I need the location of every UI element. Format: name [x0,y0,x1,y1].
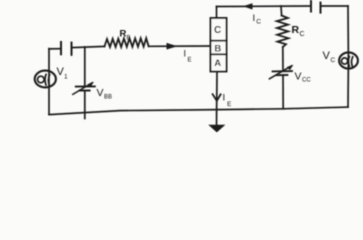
svg-text:I: I [184,49,187,59]
wire: RB to base terminal, with arrow [149,45,211,47]
label V1 [57,66,69,81]
svg-text:B: B [214,43,221,54]
svg-text:C: C [256,19,261,26]
svg-text:V: V [323,50,331,62]
svg-text:I: I [223,93,226,104]
arrow IC (pointing left on top rail) [243,3,253,9]
wire: collector stub up from block [216,7,218,19]
wire: right vertical (upper) [347,6,349,62]
arrowhead on base wire (IE into base) [167,43,178,50]
svg-text:V: V [295,71,302,83]
battery VCC (variable, with diagonal arrow) [269,65,293,79]
resistor RB (zigzag) [105,38,149,47]
wire: RC to VCC battery [282,47,284,71]
source VC (AC source circle, right) [339,52,358,68]
pin label C [214,25,221,36]
svg-text:CC: CC [302,78,311,84]
transistor block outline [211,18,227,72]
wire: top horizontal (collector rail) [217,5,312,8]
svg-text:C: C [214,25,221,36]
label VC [323,50,336,64]
pin label B [214,43,221,54]
wire: capacitor to RB / VBB junction [72,46,105,47]
svg-text:C: C [331,57,336,64]
arrow IE (emitter, open V pointing down) [213,94,221,101]
svg-text:C: C [300,31,305,38]
battery at top right (supply cell) [311,1,321,13]
svg-text:1: 1 [64,74,68,81]
svg-text:E: E [188,58,192,64]
label IE (on base wire) [184,49,192,64]
wire: left vertical branch (V1 branch) [48,49,50,115]
wire: top right to corner [321,5,349,7]
wire: VBB branch vertical (lower, overshoots bus) [84,91,86,119]
pin label A [214,58,221,69]
wire: right vertical (lower) [347,60,349,107]
label VCC [295,71,312,84]
label RC [292,24,305,38]
svg-text:V: V [97,87,104,99]
capacitor C1 (coupling capacitor) [61,42,72,55]
svg-text:BB: BB [104,95,112,101]
svg-text:A: A [214,58,221,69]
svg-text:R: R [292,24,300,36]
wire: RC branch stub from top rail [280,6,283,16]
svg-text:E: E [227,101,232,108]
svg-text:R: R [120,29,127,40]
svg-text:B: B [127,36,131,42]
wire: bottom bus [49,107,348,115]
label VBB [97,87,113,101]
ground (filled triangle) [210,125,224,131]
wire: emitter vertical from block through bus to ground [216,72,219,126]
label IC [253,13,262,26]
label RB [120,29,131,42]
battery VBB (variable, with diagonal arrow) [73,82,95,95]
source V1 (AC source circle) [35,71,56,88]
wire: VBB branch vertical (upper) [84,47,86,86]
transistor block divider C/B [211,40,227,42]
label IE (emitter) [223,93,233,109]
wire: VCC to bottom bus [282,75,284,109]
svg-text:I: I [253,13,256,24]
resistor RC (vertical zigzag) [277,16,289,48]
transistor block divider B/A [211,53,227,55]
wire: top-left horizontal into capacitor [49,48,61,50]
